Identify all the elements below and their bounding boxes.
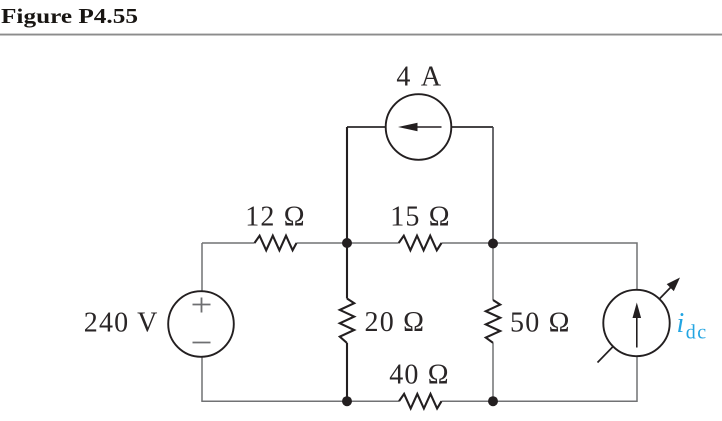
title rule: [0, 34, 722, 36]
resistor 40 ohm: [399, 394, 442, 409]
wire: 4 A loop top horizontals: [347, 126, 493, 128]
wire: bottom rail node c to node d through 40 ohm: [347, 400, 493, 402]
resistor 20 ohm: [340, 299, 354, 344]
wire: idc source bottom lead and bottom rail to node d: [493, 357, 637, 402]
node b: [488, 239, 498, 249]
node d: [488, 396, 498, 406]
current source 4 A: [386, 94, 452, 160]
svg-text:Figure P4.55: Figure P4.55: [1, 4, 138, 28]
node c: [342, 396, 352, 406]
node a: [342, 238, 352, 248]
wire: 4 A loop right vertical: [492, 127, 494, 243]
variable current source idc: body: [603, 290, 669, 356]
svg-text:20 Ω: 20 Ω: [365, 307, 426, 338]
wire: 50 ohm branch verticals: [492, 243, 494, 401]
variable current source idc: adjustment arrowhead: [667, 278, 680, 292]
resistor 15 ohm: [399, 236, 442, 251]
svg-text:12 Ω: 12 Ω: [245, 202, 306, 233]
svg-text:240 V: 240 V: [84, 308, 159, 339]
wire: top-left horizontal from source branch to node a: [202, 242, 347, 244]
voltage source plus sign: [193, 298, 211, 313]
resistor 50 ohm: [486, 300, 500, 343]
wire: left branch vertical (240 V source leads): [201, 243, 203, 401]
resistor 12 ohm: [255, 236, 297, 251]
svg-text:4 A: 4 A: [396, 62, 443, 93]
current source 4 A arrow: [413, 126, 442, 128]
svg-text:dc: dc: [686, 322, 708, 344]
variable current source idc: inner up arrow: [636, 313, 638, 348]
wire: middle horizontal node a to node b through 15 ohm: [347, 242, 493, 244]
svg-text:15 Ω: 15 Ω: [390, 202, 451, 233]
svg-text:i: i: [677, 308, 685, 339]
wire: bottom rail from source to node c: [201, 400, 347, 402]
svg-text:40 Ω: 40 Ω: [389, 360, 450, 391]
voltage source minus sign: [193, 342, 211, 344]
wire: 4 A loop left vertical and 20 ohm branch (dark): [346, 127, 348, 401]
wire: node b to right branch and down to idc source: [493, 243, 637, 290]
voltage source 240 V: [168, 291, 234, 357]
svg-text:50 Ω: 50 Ω: [510, 307, 571, 338]
variable current source idc: adjustment diagonal: [598, 287, 672, 363]
